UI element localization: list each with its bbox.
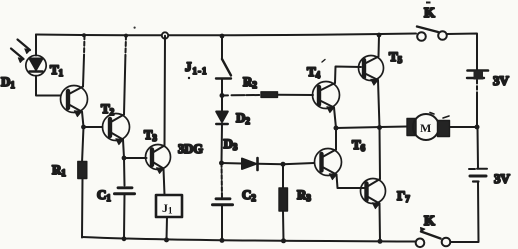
label D2 — [236, 110, 250, 126]
wire: R3 bottom lead — [282, 211, 285, 241]
scan speck: dot near T2 rail top — [134, 27, 136, 29]
node: T4 emitter / motor wire / T6 collector — [334, 126, 339, 131]
svg-text:T2: T2 — [101, 101, 115, 117]
transistor T5 — [359, 56, 384, 86]
switch K (top) — [417, 27, 447, 41]
wire: D3 right lead — [258, 163, 283, 165]
label K (top) — [424, 6, 435, 21]
wire: T2 collector rail — [124, 36, 126, 115]
wire: to T6 base — [283, 163, 314, 164]
wire: D2 cathode down to node — [221, 124, 224, 163]
svg-text:T3: T3 — [144, 128, 157, 143]
battery 3V (bottom) — [469, 169, 487, 182]
diode D3 — [242, 158, 258, 170]
node: bottom rail / J1 coil — [164, 237, 169, 242]
node: top rail / T3 collector (open) — [162, 32, 168, 38]
label T6 — [352, 137, 366, 153]
photodiode D1 — [11, 40, 46, 76]
wire: T3 emitter lead — [164, 169, 165, 196]
wire: R1 top lead — [82, 127, 84, 163]
wire: T4 emitter rail — [334, 108, 336, 129]
wire: D1 anode lead from top-left corner — [35, 35, 37, 56]
wire: R2 left lead — [222, 94, 261, 97]
svg-text:Γ7: Γ7 — [397, 188, 410, 204]
node: D3 / R3 / T6 base — [281, 162, 286, 167]
svg-text:3V: 3V — [493, 73, 510, 88]
label C2 — [242, 187, 256, 203]
wire: C2 bottom lead — [221, 205, 223, 240]
label T1 — [50, 62, 64, 78]
wire: R1 bottom lead continuing from resistor — [81, 178, 84, 238]
diode D2 — [216, 112, 228, 125]
node: top rail / J1-1 — [220, 34, 225, 39]
node: top rail / T2 collector — [124, 34, 128, 38]
wire: J1 bottom lead — [166, 217, 169, 240]
wire: D3 left lead — [222, 162, 243, 165]
capacitor C1 — [115, 188, 135, 194]
label D1 — [1, 74, 15, 90]
svg-text:J1-1: J1-1 — [185, 59, 207, 76]
transistor T1 — [61, 86, 88, 117]
wire: T7 emitter rail — [379, 204, 382, 242]
wire: R2 right lead to T4 base — [278, 94, 314, 96]
svg-text:3DG: 3DG — [178, 142, 203, 156]
wire: T1 collector rail — [83, 35, 85, 86]
transistor T4 — [313, 82, 340, 113]
label R1 — [52, 162, 66, 178]
resistor R1 — [78, 162, 87, 179]
switch K (bottom) — [416, 228, 451, 248]
relay contact J1-1 — [216, 36, 231, 96]
battery 3V (top) — [467, 71, 488, 80]
wire: battery 2 down to bottom-right corner — [451, 182, 479, 242]
wire: T2 emitter rail — [123, 140, 124, 159]
resistor R3 — [279, 188, 288, 211]
svg-text:C1: C1 — [97, 187, 111, 203]
label T2 — [101, 101, 115, 117]
label J1-1 — [185, 59, 207, 79]
wire: D1 cathode to T1 base — [36, 76, 61, 96]
node: top rail / T5 collector — [377, 33, 382, 38]
node: D2 / C2 / D3 junction — [219, 161, 224, 166]
node: T5 emitter / motor wire / T7 collector — [377, 125, 382, 130]
label K (bottom) — [424, 214, 435, 229]
wire: C1 bottom lead — [123, 194, 126, 239]
wire: bottom ground rail — [82, 237, 416, 242]
wire: to T3 base — [124, 157, 147, 159]
svg-text:D1: D1 — [1, 74, 15, 90]
wire: T7 collector rail — [379, 128, 382, 180]
node: T1 emitter / R1 / T2 base — [81, 125, 86, 130]
svg-text:R2: R2 — [243, 74, 257, 90]
wire: motor feed from T4/T6 node — [336, 127, 407, 129]
wire: motor to right rail — [450, 126, 477, 128]
label T3 — [144, 128, 157, 143]
wire: top switch to battery rail — [447, 34, 477, 72]
label C1 — [97, 187, 111, 203]
svg-text:C2: C2 — [242, 187, 256, 203]
wire: T3 collector rail — [164, 36, 167, 146]
node: bottom rail / C2 — [220, 238, 225, 243]
node: bottom rail / T7 emitter — [378, 239, 383, 244]
svg-text:T5: T5 — [389, 49, 403, 65]
wire: top supply rail — [36, 34, 416, 36]
svg-text:R1: R1 — [52, 162, 66, 178]
wire: C1 top lead — [123, 158, 126, 186]
scan speck: tick above K top — [426, 2, 431, 4]
label R2 — [243, 74, 257, 90]
wire: T5 emitter rail — [378, 80, 380, 128]
resistor R2 — [261, 92, 278, 98]
node: bottom rail / R3 — [281, 238, 286, 243]
svg-text:K: K — [424, 214, 435, 229]
label 3DG — [178, 142, 203, 156]
relay coil J1 — [156, 195, 182, 217]
svg-text:D3: D3 — [224, 136, 238, 152]
svg-text:K: K — [424, 6, 435, 21]
node: T2 emitter / T3 base / C1 — [122, 156, 127, 161]
label R3 — [297, 187, 311, 203]
wire: T1 emitter rail — [82, 112, 84, 128]
svg-text:R3: R3 — [297, 187, 311, 203]
wire: T6 emitter to T7 base — [337, 175, 366, 189]
label 3V (bottom) — [494, 171, 511, 186]
wire: T6 collector rail — [335, 128, 337, 150]
svg-text:J1: J1 — [162, 201, 173, 216]
svg-text:T6: T6 — [352, 137, 366, 153]
wire: to T2 base — [84, 126, 103, 128]
svg-text:3V: 3V — [494, 171, 511, 186]
capacitor C2 — [213, 199, 233, 205]
svg-text:T4: T4 — [307, 64, 321, 80]
wire: T4 collector to T5 base — [335, 67, 361, 84]
wire: T5 collector rail — [378, 35, 381, 57]
wire: R3 top lead — [282, 164, 284, 188]
transistor T3 — [146, 145, 171, 174]
wire: C2 top lead — [221, 163, 224, 198]
label T4 — [307, 60, 325, 81]
label T7 — [397, 188, 410, 204]
motor M — [407, 113, 450, 141]
node: top rail / T1 collector — [82, 33, 86, 37]
svg-text:D2: D2 — [236, 110, 250, 126]
wire: motor node down to battery 2 — [477, 127, 480, 168]
transistor T7 — [361, 179, 386, 209]
svg-text:T1: T1 — [50, 62, 64, 78]
node: J1-1 / R2 / D2 — [220, 93, 225, 98]
transistor T6 — [315, 149, 342, 180]
wire: battery to motor node — [476, 80, 478, 127]
node: motor / battery rail — [475, 125, 480, 130]
label D3 — [224, 136, 238, 152]
label 3V (top) — [493, 73, 510, 88]
svg-text:M: M — [420, 121, 431, 135]
wire: D2 top lead — [221, 96, 223, 112]
node: bottom rail / C1 — [122, 236, 127, 241]
label T5 — [389, 49, 403, 65]
transistor T2 — [103, 114, 130, 145]
